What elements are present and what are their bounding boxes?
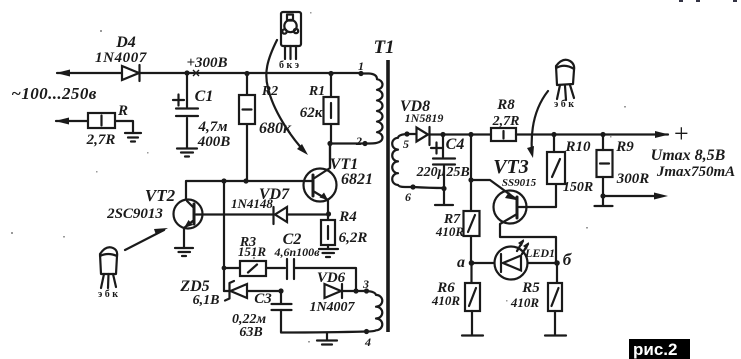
- wire C3 bottom to pin 4: [281, 332, 367, 333]
- transistor VT3: [471, 156, 556, 262]
- resistor R10: [547, 132, 593, 195]
- svg-text:6: 6: [405, 190, 411, 204]
- wire feedback column: [222, 181, 227, 291]
- transistor package VT2 (TO-92 sketch): [98, 247, 118, 300]
- svg-text:C3: C3: [254, 291, 272, 307]
- ground (R4): [319, 249, 338, 257]
- node +300V fuse mark: [186, 55, 227, 76]
- svg-text:Umax 8,5В: Umax 8,5В: [651, 147, 726, 164]
- resistor R5: [510, 263, 562, 335]
- diode VD7: [196, 186, 329, 224]
- resistor R3: [224, 235, 285, 276]
- node б: [554, 250, 573, 269]
- capacitor C1: [173, 70, 230, 150]
- output lower arrow + ground (R9): [595, 193, 669, 207]
- svg-text:VT3: VT3: [493, 156, 529, 178]
- capacitor C3: [232, 288, 292, 340]
- node C2/VD6 junction: [353, 288, 366, 293]
- svg-text:D4: D4: [115, 34, 136, 51]
- resistor R7: [435, 211, 480, 263]
- pin 4: [364, 329, 371, 349]
- resistor R8: [491, 97, 668, 141]
- svg-text:1N4007: 1N4007: [309, 300, 355, 315]
- winding primary 1-2: [361, 74, 382, 144]
- svg-text:a: a: [457, 254, 465, 271]
- svg-text:2SC9013: 2SC9013: [106, 206, 163, 222]
- svg-text:+: +: [674, 119, 689, 148]
- pin 2: [355, 134, 368, 148]
- svg-text:б к э: б к э: [279, 60, 299, 71]
- svg-text:Jmax750mA: Jmax750mA: [656, 164, 735, 180]
- svg-text:б: б: [563, 250, 573, 269]
- svg-text:5: 5: [403, 137, 409, 151]
- svg-text:6821: 6821: [341, 171, 373, 188]
- svg-text:R10: R10: [564, 139, 591, 155]
- svg-text:T1: T1: [373, 37, 394, 58]
- svg-text:1N4148: 1N4148: [231, 196, 273, 211]
- svg-text:25В: 25В: [445, 165, 469, 180]
- resistor R (fusible): [55, 103, 133, 148]
- pin 6: [405, 184, 444, 204]
- svg-text:C1: C1: [195, 88, 214, 105]
- svg-text:R9: R9: [615, 139, 634, 155]
- svg-text:3: 3: [362, 277, 369, 291]
- resistor R4: [321, 209, 367, 249]
- svg-text:410R: 410R: [431, 293, 461, 308]
- svg-text:220μ: 220μ: [416, 165, 446, 180]
- svg-text:R4: R4: [338, 209, 357, 225]
- svg-text:150R: 150R: [563, 180, 593, 195]
- transistor package VT1 (TO-126 sketch): [279, 12, 301, 71]
- svg-text:VD6: VD6: [317, 270, 346, 286]
- ground (C1): [177, 149, 197, 157]
- svg-text:R: R: [117, 103, 128, 119]
- paper specks: [11, 12, 626, 343]
- node VT3 emitter column: [468, 132, 473, 211]
- output labels: [651, 147, 736, 180]
- diode VD8: [400, 98, 491, 145]
- svg-text:1: 1: [358, 59, 364, 73]
- ground (R5): [545, 334, 566, 336]
- wire main AC rail: [56, 70, 361, 77]
- resistor R6: [431, 263, 480, 335]
- ground (R6): [462, 334, 483, 336]
- LED LED1: [472, 239, 558, 280]
- svg-text:410R: 410R: [510, 295, 540, 310]
- svg-text:1N4007: 1N4007: [95, 50, 147, 66]
- svg-text:4,6n100в: 4,6n100в: [273, 245, 320, 259]
- svg-text:4: 4: [364, 335, 371, 349]
- svg-text:~100...250в: ~100...250в: [11, 84, 96, 103]
- svg-text:6,1В: 6,1В: [193, 293, 220, 308]
- ground (R fusible): [125, 133, 141, 142]
- svg-text:R8: R8: [496, 97, 515, 113]
- svg-text:300R: 300R: [616, 171, 650, 187]
- svg-text:2,7R: 2,7R: [492, 114, 520, 129]
- fly arrow package to VT1: [266, 40, 308, 155]
- svg-text:LED1: LED1: [524, 246, 555, 260]
- svg-text:4,7м: 4,7м: [197, 119, 227, 135]
- svg-text:C4: C4: [446, 136, 465, 153]
- zener ZD5: [179, 278, 281, 308]
- ground (C4): [435, 204, 453, 206]
- svg-text:63В: 63В: [239, 325, 262, 340]
- node a: [457, 254, 474, 271]
- winding secondary 5-6: [392, 131, 413, 187]
- ground (VT2): [175, 248, 193, 256]
- ground (C3 line): [317, 333, 337, 345]
- transistor VT1: [304, 144, 374, 221]
- diode VD6: [309, 270, 356, 315]
- svg-text:2,7R: 2,7R: [86, 132, 116, 148]
- fly arrow package to VT3: [527, 91, 548, 158]
- top edge artifacts: [679, 0, 737, 2]
- transistor VT2: [106, 186, 202, 248]
- svg-text:R5: R5: [521, 280, 540, 296]
- svg-text:+300В: +300В: [186, 55, 227, 71]
- node VT1 emitter junction: [326, 211, 331, 216]
- svg-text:VT2: VT2: [145, 186, 176, 205]
- svg-text:62к: 62к: [300, 105, 323, 121]
- svg-text:R1: R1: [308, 84, 325, 99]
- resistor R1: [300, 71, 339, 143]
- wire pin2 to VT1 collector: [327, 141, 365, 167]
- svg-text:рис.2: рис.2: [633, 340, 677, 359]
- capacitor C4: [416, 132, 470, 204]
- figure label: [629, 339, 690, 359]
- output + arrow: [655, 119, 689, 148]
- svg-text:151R: 151R: [238, 244, 267, 259]
- transformer core: [386, 60, 390, 332]
- winding feedback 3-4: [367, 291, 383, 332]
- svg-text:2: 2: [355, 134, 362, 148]
- diode D4: [95, 34, 147, 81]
- svg-text:410R: 410R: [435, 224, 465, 239]
- svg-text:400В: 400В: [197, 134, 231, 150]
- resistor R2: [239, 71, 292, 181]
- resistor R9: [597, 132, 650, 196]
- svg-text:э б к: э б к: [554, 99, 574, 110]
- transistor package VT3 (TO-92 sketch): [554, 60, 574, 110]
- svg-text:э б к: э б к: [98, 289, 118, 300]
- wire VT2 collector top rail: [186, 178, 305, 200]
- capacitor C2: [273, 231, 356, 291]
- svg-text:SS9015: SS9015: [502, 177, 537, 189]
- svg-text:6,2R: 6,2R: [339, 230, 368, 246]
- pin 1: [358, 59, 364, 76]
- fly arrow package to VT2: [125, 228, 168, 250]
- pin 3: [362, 277, 369, 294]
- svg-text:1N5819: 1N5819: [405, 111, 444, 125]
